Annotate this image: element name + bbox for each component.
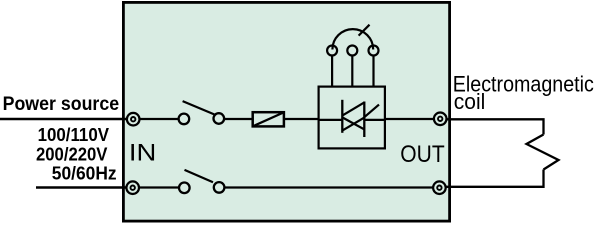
wire: top rail module-to-OUT-terminal: [385, 118, 440, 120]
switch S1 (top pole): [179, 101, 225, 124]
label: Electromagnetic coil: [453, 72, 594, 115]
power adjuster VR1: middle tap terminal: [347, 46, 357, 56]
wire: bottom rail switch-to-OUT-terminal: [224, 186, 439, 188]
terminal IN-L (top left binding post): [127, 113, 140, 126]
power adjuster VR1: right tap wire: [372, 55, 374, 87]
wire: bottom-right external lead from load: [445, 170, 544, 187]
power adjuster VR1: right tap terminal: [369, 46, 379, 56]
power adjuster VR1: dial arc: [332, 29, 373, 49]
wire: IN top rail segment terminal-to-switch: [133, 118, 179, 120]
terminal OUT-N (bottom right binding post): [433, 181, 446, 194]
svg-text:100/110V: 100/110V: [38, 125, 110, 146]
wire: bottom-left external lead: [36, 186, 128, 188]
electromagnetic coil load (zigzag): [527, 135, 559, 170]
triac Q1 symbol: [319, 100, 385, 137]
wire: top-left external lead: [0, 118, 128, 120]
svg-text:OUT: OUT: [400, 141, 445, 168]
thyristor power module U1 (inner box): [319, 87, 385, 149]
wire: OUT bottom rail terminal-to-switch: [133, 186, 180, 188]
terminal IN-N (bottom left binding post): [126, 181, 139, 194]
wire: top-right external lead to load: [446, 119, 544, 134]
power controller enclosure box: [123, 2, 449, 221]
power adjuster VR1: wiper stroke: [359, 25, 370, 36]
wire: top rail fuse-to-module: [285, 118, 319, 120]
svg-text:200/220V: 200/220V: [36, 144, 108, 165]
power adjuster VR1: middle tap wire: [351, 55, 353, 87]
terminal OUT-L (top right binding post): [434, 113, 447, 126]
svg-text:coil: coil: [454, 89, 486, 114]
svg-text:50/60Hz: 50/60Hz: [52, 163, 117, 184]
power adjuster VR1: left tap wire: [331, 55, 333, 87]
switch S2 (bottom pole): [179, 170, 224, 193]
power adjuster VR1: left tap terminal: [327, 46, 337, 56]
fuse F1 (rectangle with diagonal): [253, 112, 284, 126]
svg-text:Power source: Power source: [3, 94, 120, 115]
wire: top rail switch-to-fuse: [224, 118, 252, 120]
svg-text:IN: IN: [129, 139, 156, 166]
